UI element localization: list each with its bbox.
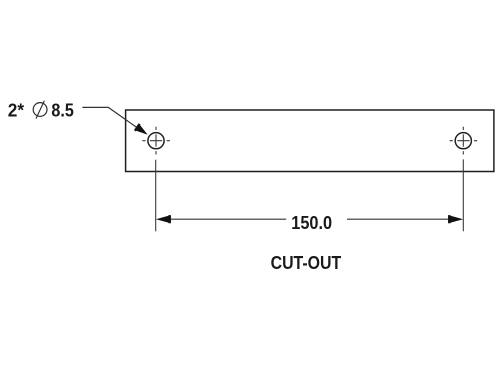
hole H2: [455, 133, 471, 149]
svg-text:2*: 2*: [8, 101, 24, 121]
svg-text:150.0: 150.0: [291, 213, 332, 233]
dimension arrow left: [156, 215, 171, 223]
svg-text:CUT-OUT: CUT-OUT: [271, 253, 342, 273]
leader line: [82, 107, 144, 132]
hole H2 centerline horizontal: [450, 140, 478, 142]
extension line right: [462, 159, 464, 231]
extension line left: [155, 160, 157, 232]
svg-text:8.5: 8.5: [51, 101, 73, 121]
plate outline: [126, 110, 494, 172]
leader arrowhead: [134, 123, 148, 134]
hole H1: [148, 133, 164, 149]
hole H1 centerline vertical: [155, 127, 157, 155]
hole H1 centerline horizontal: [142, 140, 170, 142]
dimension arrow right: [448, 215, 463, 223]
hole H2 centerline vertical: [462, 127, 464, 155]
dimension line right segment: [347, 218, 451, 220]
dimension line left segment: [168, 218, 286, 220]
diameter symbol: [33, 101, 47, 119]
